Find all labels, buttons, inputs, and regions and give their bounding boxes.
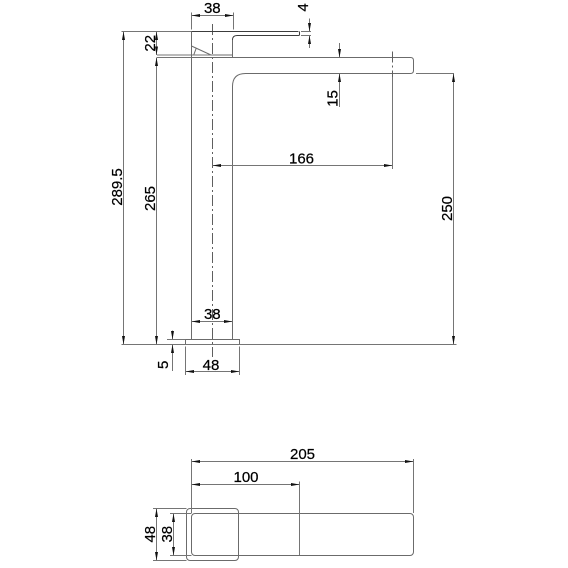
svg-text:38: 38 [159, 526, 176, 543]
svg-text:100: 100 [233, 469, 258, 486]
dimension 100 [299, 482, 301, 556]
dimension 265 (body height) [156, 58, 158, 345]
handle cap chamfer [192, 46, 212, 55]
dimension 250 (spout clearance) [416, 73, 454, 75]
dimension 48 (plan depth) [153, 508, 187, 510]
svg-text:48: 48 [203, 357, 220, 374]
dimension 38 (body width, lower) [192, 321, 233, 323]
dimension 38 (top) [191, 13, 193, 30]
svg-text:38: 38 [204, 0, 221, 17]
svg-text:38: 38 [204, 306, 221, 323]
handle top edge + extension to 289.5/22 dims [122, 31, 192, 33]
dimension 15 (spout height) [339, 43, 341, 58]
aerator axis centerline [392, 52, 394, 78]
svg-text:205: 205 [290, 446, 315, 463]
dimension 4 (lever thickness) [301, 31, 311, 33]
svg-text:250: 250 [439, 196, 456, 221]
dimension 166 (spout reach) [213, 165, 393, 167]
spout/handle bar (38 wide) in plan [192, 514, 414, 556]
dimension 22 (handle cap height) [156, 32, 158, 56]
aerator extension line to 166 dim [392, 77, 394, 169]
svg-text:22: 22 [142, 35, 159, 52]
dimension 5 (base height) [167, 339, 186, 341]
handle skirt edge [194, 48, 197, 55]
handle cap left edge [191, 32, 193, 47]
base plate [186, 340, 240, 345]
base bottom edge + extensions to 289.5/265 and 250 dims [122, 344, 457, 346]
dimension 289.5 (total height) [123, 32, 125, 345]
handle lever outline (right end + underside) [233, 32, 300, 41]
body top / spout top edge + extension to 265 dim [157, 57, 192, 59]
body right edge [232, 87, 234, 340]
svg-text:265: 265 [142, 186, 159, 211]
svg-text:166: 166 [289, 150, 314, 167]
svg-text:48: 48 [142, 526, 159, 543]
handle cap right edge [232, 40, 234, 58]
body left edge [191, 46, 193, 340]
faucet centerline [212, 24, 214, 357]
spout bottom edge with inner radius to body [233, 74, 411, 87]
dimension 205 (overall length) [191, 459, 193, 513]
handle cap bottom line + extension to 22 dim [157, 54, 211, 56]
svg-text:15: 15 [325, 90, 342, 107]
dimension 38 (plan bar depth) [170, 513, 192, 515]
svg-text:5: 5 [155, 361, 172, 369]
dimension 48 (base width) [185, 347, 187, 376]
spout tip right edge [411, 58, 414, 74]
base plate (48x48) in plan [187, 509, 239, 561]
svg-text:289.5: 289.5 [109, 168, 126, 206]
svg-text:4: 4 [295, 3, 312, 11]
